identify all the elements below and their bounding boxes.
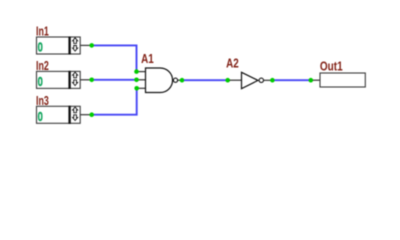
svg-text:0: 0 <box>38 74 43 89</box>
wire In3 to A1 bottom input <box>92 88 137 114</box>
node A1 input 3 <box>134 86 139 91</box>
node A1 output <box>180 78 185 83</box>
node A2 output <box>270 78 275 83</box>
nand gate A1 body <box>146 68 173 93</box>
node A1 input 1 <box>134 69 139 74</box>
input block In3 <box>36 93 90 124</box>
svg-text:0: 0 <box>38 109 43 124</box>
input block In1 <box>36 24 90 55</box>
inverter A2 bubble <box>259 78 263 82</box>
In3 spinner box <box>70 106 81 123</box>
node In1 output <box>89 43 94 48</box>
In2 spinner thick divider <box>68 71 70 89</box>
nand gate A1 bubble <box>173 78 177 82</box>
svg-text:In3: In3 <box>36 93 49 108</box>
node Out1 input <box>309 78 314 83</box>
inverter A2 output pin <box>264 79 271 81</box>
svg-text:In2: In2 <box>36 58 49 73</box>
node A1 input 2 <box>134 78 139 83</box>
inverter A2 body <box>242 72 259 88</box>
In3 output pin <box>80 114 90 116</box>
node A2 input <box>225 78 230 83</box>
In1 spinner down arrow <box>73 46 78 52</box>
In1 output pin <box>80 44 90 46</box>
wire A1 to A2 <box>184 79 227 81</box>
inverter A2 input pin <box>230 79 242 81</box>
In2 spinner up arrow <box>73 72 78 78</box>
In1 spinner thick divider <box>68 37 70 55</box>
wire In1 to A1 top input <box>92 45 137 71</box>
In3 spinner down arrow <box>73 115 78 121</box>
input block In2 <box>36 58 90 89</box>
In1 spinner up arrow <box>73 38 78 44</box>
svg-text:A1: A1 <box>141 51 154 66</box>
output block Out1 box <box>320 73 365 87</box>
node In3 output <box>89 112 94 117</box>
nand gate A1 input pin 2 <box>137 79 146 81</box>
In2 output pin <box>80 79 90 81</box>
svg-text:A2: A2 <box>226 55 239 70</box>
output block Out1 input pin <box>313 79 320 81</box>
In2 value box <box>37 71 70 88</box>
nand gate A1 output pin <box>178 79 181 81</box>
In3 spinner thick divider <box>68 106 70 124</box>
In2 spinner box <box>70 71 81 88</box>
wire A2 to Out1 <box>275 79 310 81</box>
nand gate A1 input pin 1 <box>137 71 146 73</box>
In1 spinner box <box>70 37 81 54</box>
In3 value box <box>37 106 70 123</box>
In1 value box <box>37 37 70 54</box>
wire In2 to A1 middle input <box>92 79 137 81</box>
In2 spinner down arrow <box>73 80 78 86</box>
node In2 output <box>89 78 94 83</box>
nand gate A1 input pin 3 <box>137 87 146 89</box>
svg-text:Out1: Out1 <box>320 59 343 74</box>
In3 spinner up arrow <box>73 107 78 113</box>
svg-text:0: 0 <box>38 40 43 55</box>
